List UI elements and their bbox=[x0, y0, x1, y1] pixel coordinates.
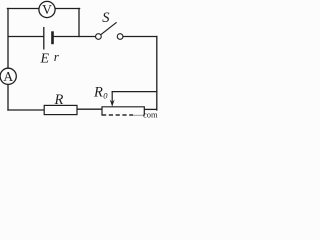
resistor R bbox=[44, 92, 77, 115]
switch S bbox=[96, 10, 123, 40]
svg-text:E: E bbox=[40, 52, 50, 67]
svg-text:com: com bbox=[143, 110, 158, 120]
svg-text:0: 0 bbox=[103, 91, 108, 101]
wire top-left horizontal bbox=[7, 8, 39, 10]
svg-text:R: R bbox=[54, 92, 64, 108]
ammeter A bbox=[0, 68, 16, 84]
battery E r bbox=[40, 27, 60, 67]
wire top horizontal right of voltmeter bbox=[55, 8, 79, 10]
wire switch to top-right corner bbox=[123, 36, 157, 38]
rheostat R0 bbox=[93, 85, 144, 116]
svg-text:R: R bbox=[93, 85, 103, 101]
svg-text:V: V bbox=[42, 2, 52, 17]
wire R0 to right vertical bbox=[144, 108, 157, 110]
wire left vertical bbox=[7, 9, 9, 111]
wire rheostat wiper horizontal bbox=[112, 91, 157, 93]
wire voltmeter branch vertical bbox=[78, 9, 80, 37]
wire right vertical bbox=[156, 37, 158, 111]
svg-text:A: A bbox=[3, 69, 13, 84]
voltmeter V bbox=[39, 1, 55, 17]
wire between R and R0 bbox=[77, 108, 102, 110]
wire battery to switch bbox=[54, 36, 96, 38]
wire battery row left bbox=[8, 36, 44, 38]
svg-text:S: S bbox=[102, 10, 110, 26]
wire bottom-left horizontal bbox=[8, 109, 44, 111]
